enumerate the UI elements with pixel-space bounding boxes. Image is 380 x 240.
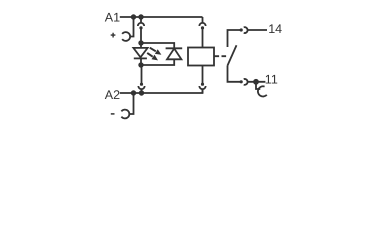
plug connector socket arc (A1 to LED branch) [138,19,144,26]
svg-text:A2: A2 [105,88,120,102]
plug connector socket arc (14) [244,27,248,33]
junction dot A2 rail / LED branch [139,90,144,95]
plug connector pin (coil to A2) [201,83,204,86]
plug connector pin (A1 to coil) [201,26,204,29]
wire LED bottom rail [141,59,174,65]
wire LED branch to A2 connector [141,65,143,83]
test socket - [121,110,129,119]
test socket + [122,32,130,41]
wire A1 dot to + test socket [130,17,133,37]
wire to terminal 11 node [248,81,266,83]
wire A1 rail to coil connector [202,17,204,23]
svg-text:A1: A1 [105,11,120,25]
wire A2 rail [120,89,203,93]
node LED top junction [138,40,143,45]
relay coil K1 [188,48,214,66]
contact common wire to 11 connector [228,66,241,82]
junction dot A2 rail / - socket branch [131,90,136,95]
plug connector socket arc (LED branch to A2) [138,86,144,93]
label - [111,113,115,115]
wire A2 dot to - test socket [129,93,133,114]
wire coil K1 to A2 connector [202,66,204,84]
plug connector socket arc (A1 to coil) [199,23,205,26]
LED D1 cathode bar [134,57,147,59]
node terminal 11 junction [253,79,259,85]
LED D1 light arrow 2 [147,53,153,57]
svg-text:14: 14 [268,22,282,36]
wire pin to coil K1 [202,28,204,48]
diode D2 triangle [167,49,181,60]
wire LED top rail [141,43,174,48]
wire to terminal 14 [248,29,267,31]
relay contact blade [228,45,237,65]
plug connector socket arc (11) [244,79,248,85]
plug connector pin (A1 to LED branch) [139,26,142,29]
plug connector socket arc (coil to A2) [199,86,205,93]
svg-text:11: 11 [265,72,278,86]
junction dot A1 rail / + socket branch [131,14,136,19]
wire A1 rail [120,16,203,18]
test socket 11 [258,86,267,96]
plug connector pin (LED branch to A2) [140,83,143,86]
diode D2 cathode bar [166,47,183,49]
node LED bottom junction [138,62,143,67]
mechanical link (dashed) coil to contact [215,55,227,57]
wire pin to LED node [140,28,142,43]
plug connector pin (14) [240,28,243,31]
label + [111,33,116,38]
LED D1 cathode wire [140,58,142,65]
contact fixed terminal and wire to 14 connector [228,30,241,47]
LED D1 light arrow 1 [150,48,156,52]
plug connector pin (11) [240,80,243,83]
junction dot A1 rail / LED branch [138,14,143,19]
wire 11 node to test socket [256,84,260,89]
LED D1 triangle [133,48,147,57]
LED D1 anode wire [140,43,142,48]
